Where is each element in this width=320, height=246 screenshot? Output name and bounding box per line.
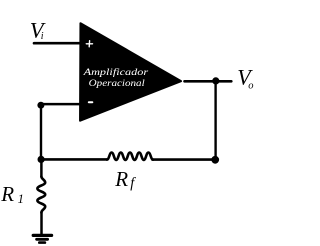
- wire feedback bottom right: [153, 158, 213, 161]
- label Vo: [237, 64, 253, 91]
- wire Vi input: [34, 42, 81, 45]
- wire R1 top: [40, 160, 43, 177]
- node R1 junction: [38, 156, 45, 163]
- label R1: [0, 182, 24, 206]
- svg-text:R: R: [0, 182, 14, 206]
- label Amplificador Operacional: [82, 67, 148, 89]
- wire output vertical: [214, 81, 216, 160]
- wire output: [185, 80, 232, 83]
- node output junction: [212, 77, 219, 84]
- label Vi: [30, 17, 46, 42]
- wire left vertical: [40, 105, 42, 159]
- svg-text:R: R: [114, 167, 128, 191]
- svg-text:i: i: [41, 31, 44, 42]
- svg-text:1: 1: [18, 192, 24, 206]
- wire feedback bottom left: [44, 158, 107, 161]
- svg-text:o: o: [248, 80, 253, 91]
- wire inverting input: [41, 103, 80, 106]
- pin - (inverting input): [89, 101, 93, 103]
- resistor Rf: [107, 153, 153, 160]
- pin + (non-inverting input): [86, 41, 92, 47]
- label Rf: [114, 167, 136, 191]
- svg-text:Operacional: Operacional: [89, 79, 145, 89]
- resistor R1: [37, 177, 45, 213]
- svg-text:Amplificador: Amplificador: [82, 67, 148, 78]
- wire R1 bottom: [40, 213, 43, 235]
- node inverting input junction: [37, 102, 44, 109]
- op-amp U1: [80, 23, 181, 120]
- node feedback corner: [211, 156, 219, 164]
- ground: [33, 235, 51, 242]
